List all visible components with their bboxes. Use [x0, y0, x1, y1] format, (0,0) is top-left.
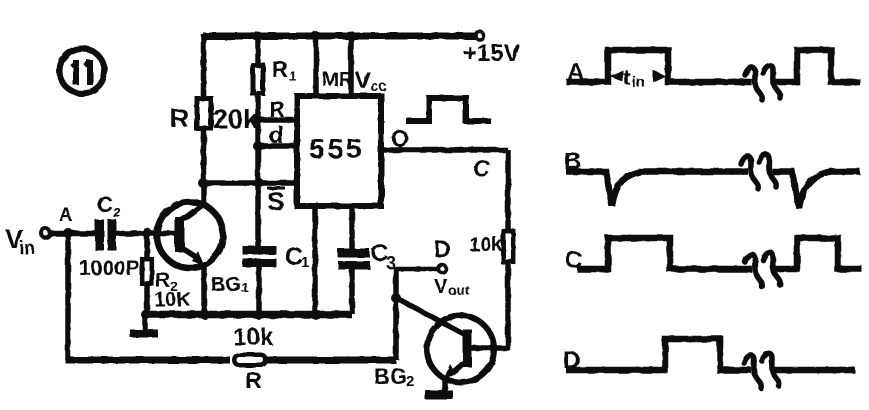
svg-text:D: D: [434, 236, 451, 262]
wire top +15V rail: [203, 33, 477, 40]
capacitor C2: [95, 192, 121, 251]
svg-text:R: R: [272, 57, 288, 82]
terminal +15V: [463, 32, 520, 68]
wire left rail (top rail corner down to resistor R): [201, 34, 207, 96]
waveform A: [566, 50, 860, 86]
svg-text:A: A: [59, 205, 73, 226]
junction C1 lead / S-bar row: [254, 178, 264, 188]
break marks C: [745, 252, 780, 287]
terminal Vout: [438, 265, 446, 273]
junction top rail / R1: [253, 31, 263, 41]
wire C1 bottom lead: [256, 267, 262, 314]
wire left rail lower (R bottom to S-bar row): [201, 131, 207, 186]
resistor 10k (collector load): [469, 231, 513, 262]
junction C1 / ground rail: [254, 310, 264, 320]
break marks D: [744, 353, 779, 388]
wire IC bottom pin to C3: [349, 209, 355, 249]
wire 10k top lead: [505, 150, 511, 229]
svg-text:d: d: [269, 122, 284, 149]
svg-text:S: S: [267, 186, 284, 216]
output pulse symbol: [406, 98, 491, 121]
junction R3 / ground rail: [141, 310, 151, 320]
svg-text:in: in: [19, 238, 35, 258]
wire S-bar row: [204, 180, 295, 186]
capacitor C3: [338, 240, 396, 273]
pin label Vcc: [355, 67, 387, 95]
wire R1 bottom lead down to C1: [255, 96, 261, 246]
op-amp U1: 555 timer IC: [297, 96, 381, 206]
capacitor C1: [243, 243, 310, 271]
svg-text:MR: MR: [322, 69, 354, 91]
wire feedback vertical: [393, 267, 399, 360]
transistor Q1: BG1: [157, 202, 223, 268]
resistor R: [197, 99, 211, 129]
wire node A feedback down: [65, 233, 71, 360]
wire bottom feedback right segment: [265, 357, 396, 364]
terminal Vin: [41, 229, 50, 238]
wire Q-bar pin stub: [258, 143, 294, 149]
svg-text:+15V: +15V: [463, 40, 520, 67]
pin label S-bar: [267, 186, 285, 216]
wire 10k bottom lead to BG2 collector: [468, 264, 508, 348]
wire R3 bottom lead: [144, 286, 150, 314]
svg-text:20k: 20k: [213, 104, 259, 134]
svg-text:1000P: 1000P: [79, 257, 140, 280]
junction R1 lead / Q-bar pin: [253, 141, 263, 151]
junction BG1 emitter / ground rail: [200, 310, 210, 320]
junction R1 lead / R pin: [253, 115, 263, 125]
svg-text:V: V: [434, 276, 448, 298]
wire Q output: [384, 147, 508, 153]
svg-text:1: 1: [241, 279, 249, 295]
wire ground rail: [143, 311, 352, 319]
waveform B: [564, 148, 860, 208]
figure number 11: [60, 49, 105, 94]
ground (left): [130, 314, 158, 334]
input label Vin: [5, 224, 35, 258]
break marks A: [745, 65, 780, 100]
svg-text:R: R: [269, 97, 285, 122]
junction feedback / BG2 base: [391, 293, 401, 303]
wire C2 to BG1 base: [116, 231, 176, 237]
wire bottom feedback left segment: [66, 357, 231, 364]
label Vout: [434, 276, 470, 298]
svg-text:1: 1: [289, 68, 297, 84]
svg-text:BG: BG: [374, 364, 407, 389]
break marks B: [741, 154, 776, 189]
wire BG1 emitter down: [201, 264, 207, 314]
transistor Q2: BG2: [398, 299, 494, 392]
resistor R3: [142, 259, 191, 311]
wire R pin stub: [258, 117, 294, 123]
wire Vcc pin from rail to IC: [348, 36, 354, 93]
svg-text:V: V: [355, 67, 371, 93]
waveform D: [563, 339, 855, 374]
resistor R1: [253, 57, 297, 94]
svg-text:out: out: [448, 282, 470, 298]
junction top rail / MR: [311, 31, 321, 41]
svg-text:2: 2: [113, 204, 121, 220]
wire input to C2: [50, 231, 95, 237]
wire MR pin from rail to IC: [313, 36, 319, 93]
ground (BG2 emitter): [425, 391, 453, 400]
svg-text:in: in: [632, 74, 645, 91]
dimension t_in: [610, 65, 666, 91]
svg-text:1: 1: [301, 254, 309, 271]
wire Vout to feedback node: [396, 267, 438, 272]
resistor R (feedback 10k): [233, 324, 274, 393]
wire R1 top lead: [255, 36, 261, 63]
wire R3 top lead: [144, 233, 150, 257]
svg-text:10k: 10k: [469, 234, 503, 256]
svg-text:R: R: [245, 367, 262, 393]
svg-text:2: 2: [406, 373, 414, 390]
junction node A: [63, 228, 73, 238]
label BG1: [211, 274, 249, 296]
svg-text:3: 3: [386, 253, 396, 273]
svg-text:cc: cc: [370, 78, 387, 95]
svg-text:10k: 10k: [233, 324, 274, 351]
svg-text:Q: Q: [391, 125, 409, 151]
svg-text:C: C: [473, 155, 490, 181]
junction left rail / S-bar row / BG1 collector: [198, 178, 208, 188]
junction top rail / Vcc: [346, 31, 356, 41]
junction C2 / R3: [142, 228, 152, 238]
waveform C: [565, 238, 862, 274]
wire BG1 collector up: [201, 183, 207, 205]
wire IC bottom pin to ground rail: [312, 209, 318, 314]
svg-text:R: R: [170, 103, 189, 133]
junction IC pin / ground rail: [310, 310, 320, 320]
svg-text:t: t: [623, 65, 631, 90]
wire C3 bottom lead: [349, 269, 355, 314]
svg-text:10K: 10K: [154, 289, 191, 311]
svg-text:C: C: [97, 192, 113, 217]
svg-text:555: 555: [309, 133, 365, 164]
label BG2: [374, 364, 414, 390]
svg-text:BG: BG: [211, 274, 241, 296]
